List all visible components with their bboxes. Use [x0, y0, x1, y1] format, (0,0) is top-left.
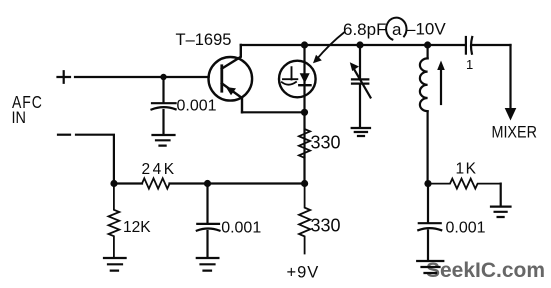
svg-text:0.001: 0.001	[177, 98, 217, 115]
svg-text:24K: 24K	[142, 161, 177, 178]
svg-text:1K: 1K	[456, 161, 478, 178]
svg-text:+9V: +9V	[287, 264, 320, 282]
svg-text:0.001: 0.001	[221, 220, 261, 237]
svg-text:330: 330	[311, 133, 341, 153]
svg-text:IN: IN	[12, 109, 26, 127]
svg-text:a: a	[392, 20, 402, 39]
svg-text:330: 330	[311, 216, 341, 236]
svg-text:MIXER: MIXER	[492, 124, 537, 142]
svg-text:SeekIC.com: SeekIC.com	[426, 259, 545, 282]
svg-text:6.8pF: 6.8pF	[343, 20, 386, 39]
svg-text:0.001: 0.001	[446, 220, 486, 237]
svg-text:–10V: –10V	[406, 20, 446, 39]
svg-text:1: 1	[466, 57, 473, 72]
svg-text:T–1695: T–1695	[176, 31, 232, 49]
svg-text:12K: 12K	[123, 219, 151, 236]
